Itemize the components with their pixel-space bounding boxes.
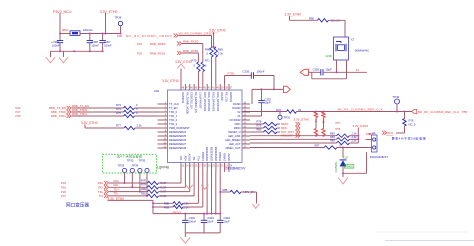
ground: [186, 185, 193, 189]
node junction: [219, 213, 221, 215]
svg-text:PFBIN1: PFBIN1: [201, 152, 205, 162]
wire: [72, 111, 124, 113]
svg-text:RXD_1/PHYAD2: RXD_1/PHYAD2: [207, 92, 211, 112]
svg-text:TX_CLK: TX_CLK: [169, 102, 179, 106]
resistor R84: [337, 138, 350, 141]
wire: [159, 182, 182, 184]
resistor R71: [201, 62, 204, 72]
resistor R81: [148, 194, 159, 197]
resistor R76: [403, 119, 406, 127]
svg-text:RESET_N: RESET_N: [229, 130, 241, 134]
svg-text:R68: R68: [205, 48, 210, 52]
note box (test points): [103, 154, 157, 173]
wire: [153, 206, 173, 208]
capacitor C306: [57, 40, 63, 42]
wire: [189, 172, 191, 192]
svg-text:TP34: TP34: [132, 164, 139, 168]
port MDIO: [296, 122, 301, 126]
svg-text:R84: R84: [330, 135, 335, 139]
node junction: [152, 206, 154, 208]
test point TP36: [118, 21, 122, 25]
wire: [197, 72, 199, 85]
node junction: [89, 33, 91, 35]
resistor R74: [124, 110, 135, 113]
svg-text:RBIAS: RBIAS: [223, 153, 227, 161]
svg-text:R88: R88: [164, 201, 169, 205]
svg-text:RMII_TXD1: RMII_TXD1: [51, 114, 66, 118]
svg-text:PHOG02B-5T: PHOG02B-5T: [370, 155, 388, 159]
svg-text:AGND: AGND: [227, 154, 231, 162]
svg-text:RD-: RD-: [179, 156, 183, 161]
node junction: [323, 111, 325, 113]
wire: [343, 172, 367, 174]
svg-text:2.2k: 2.2k: [352, 131, 358, 135]
test point TP31: [278, 115, 282, 119]
connector J4 body: [372, 135, 378, 152]
svg-text:MII_RX_DV/RMII_CRSDV: MII_RX_DV/RMII_CRSDV: [126, 34, 172, 38]
svg-text:TD-: TD-: [114, 192, 119, 196]
svg-text:RESERVED25: RESERVED25: [169, 134, 187, 138]
svg-text:要求4%干扰50欧电阻: 要求4%干扰50欧电阻: [392, 135, 426, 140]
svg-text:RESERVED: RESERVED: [214, 147, 218, 161]
test point TP32: [145, 168, 149, 172]
resistor R73: [124, 106, 135, 109]
svg-text:100nF: 100nF: [104, 44, 112, 48]
svg-text:15pF: 15pF: [326, 68, 332, 72]
svg-text:RMII_RXD1: RMII_RXD1: [183, 49, 199, 53]
svg-text:+C306: +C306: [51, 40, 59, 44]
svg-text:P21: P21: [61, 194, 66, 198]
wire: [241, 191, 257, 193]
svg-text:LED_ACT: LED_ACT: [229, 142, 241, 146]
svg-text:P28: P28: [16, 114, 21, 118]
wire: [277, 123, 280, 125]
capacitor C308: [89, 34, 91, 41]
svg-text:R80: R80: [141, 187, 146, 191]
node junction: [342, 147, 344, 149]
wire: [109, 191, 148, 193]
svg-text:C305: C305: [313, 68, 320, 72]
svg-text:FB3V3: FB3V3: [173, 210, 182, 214]
svg-text:NC_0: NC_0: [409, 122, 416, 126]
svg-text:P35: P35: [137, 52, 142, 56]
svg-text:TD+: TD+: [196, 156, 200, 161]
resistor R78: [148, 181, 159, 184]
svg-text:RXD_3/PHYAD4: RXD_3/PHYAD4: [216, 92, 220, 112]
svg-text:P59: P59: [336, 127, 341, 131]
port TD+: [104, 190, 109, 194]
node junction: [273, 88, 275, 90]
wire: [357, 128, 359, 143]
wire: [250, 123, 264, 125]
wire: [180, 172, 182, 183]
svg-text:2.2k: 2.2k: [352, 139, 358, 143]
wire: [323, 118, 325, 129]
oscillator Y2 crystal: [338, 45, 345, 51]
svg-text:R78: R78: [257, 120, 262, 124]
svg-text:TP33: TP33: [118, 164, 125, 168]
svg-text:RX_DV/MII_MODE: RX_DV/MII_MODE: [185, 92, 189, 114]
node junction: [211, 213, 213, 215]
wire: [252, 88, 284, 90]
wire: [179, 35, 212, 37]
connector J4 pin2: [373, 146, 376, 149]
wire: [311, 72, 313, 79]
capacitor C303: [203, 214, 205, 221]
resistor R65 strap: [322, 112, 325, 118]
wire: [105, 13, 107, 34]
svg-text:C326: C326: [243, 70, 250, 74]
port RD-: [104, 185, 109, 189]
svg-text:Y2: Y2: [351, 37, 355, 41]
svg-text:MII_RX_CLK/RMII_REF_CLK: MII_RX_CLK/RMII_REF_CLK: [418, 110, 459, 114]
svg-text:U32: U32: [154, 89, 160, 93]
wire: [197, 172, 199, 203]
node junction: [215, 213, 217, 215]
wire: [277, 131, 280, 133]
svg-text:10nF: 10nF: [207, 220, 213, 224]
svg-text:3.3V_ETH0: 3.3V_ETH0: [175, 60, 192, 64]
ground: [201, 185, 208, 190]
port MII_RX_CLK input: [412, 109, 417, 113]
wire: [250, 142, 337, 144]
svg-text:DGND: DGND: [233, 102, 241, 106]
svg-text:RESERVED27: RESERVED27: [169, 142, 187, 146]
svg-text:TX_EN: TX_EN: [169, 106, 177, 110]
resistor R64 strap: [314, 112, 317, 118]
wire: [254, 75, 275, 77]
svg-text:P68: P68: [366, 132, 371, 136]
svg-text:RD+: RD+: [183, 156, 187, 162]
node junction: [146, 195, 148, 197]
node junction: [323, 135, 325, 137]
wire: [309, 71, 321, 73]
ground: [46, 57, 56, 63]
wire: [182, 52, 198, 54]
wire: [220, 191, 230, 193]
power flag up: [177, 64, 185, 69]
diode D17: [340, 159, 347, 161]
node junction: [73, 50, 75, 52]
wire: [84, 124, 86, 128]
port RD+: [104, 181, 109, 185]
svg-text:TP32: TP32: [127, 158, 134, 162]
wire: [135, 115, 158, 117]
wire: [215, 172, 217, 214]
svg-text:AGND: AGND: [188, 154, 192, 162]
svg-text:RESERVED: RESERVED: [205, 147, 209, 161]
node junction: [336, 71, 338, 73]
svg-text:R64: R64: [314, 119, 317, 124]
resistor R65 strap2: [322, 129, 325, 136]
port PHY_RST: [296, 130, 301, 134]
svg-text:TP35: TP35: [139, 158, 146, 162]
svg-text:TD-: TD-: [192, 157, 196, 161]
node junction: [152, 202, 154, 204]
svg-text:2.2k: 2.2k: [137, 124, 143, 128]
sheet border faint: [385, 240, 474, 242]
node junction: [131, 186, 133, 188]
port RMII_TXD0: [67, 110, 72, 114]
svg-text:50MHz/NC: 50MHz/NC: [355, 48, 369, 52]
wire: [109, 195, 148, 197]
wire: [159, 195, 195, 197]
resistor R86: [230, 190, 241, 193]
svg-text:RESERVED24: RESERVED24: [169, 130, 187, 134]
test point TP34: [130, 168, 134, 172]
node junction: [206, 213, 208, 215]
svg-text:3.3V_ETH0: 3.3V_ETH0: [209, 28, 226, 32]
wire: [197, 61, 199, 64]
svg-text:PD402: PD402: [345, 164, 353, 168]
wire: [212, 46, 216, 48]
wire: [109, 182, 148, 184]
wire: [329, 19, 346, 21]
wire: [80, 33, 121, 35]
node junction: [139, 191, 141, 193]
wire: [131, 173, 133, 188]
svg-text:C302: C302: [189, 216, 196, 220]
capacitor C307: [102, 34, 104, 41]
svg-text:AVDD33: AVDD33: [229, 92, 233, 102]
capacitor C304: [219, 219, 221, 221]
svg-text:RESERVED: RESERVED: [210, 147, 214, 161]
wire: [350, 135, 359, 137]
wire: [72, 107, 124, 109]
wire: [182, 43, 203, 45]
node junction: [261, 88, 263, 90]
wire: [72, 115, 124, 117]
svg-text:R75: R75: [116, 111, 121, 115]
capacitor C326: [250, 72, 252, 78]
capacitor C325: [261, 89, 263, 100]
svg-text:25MHz_OUT: 25MHz_OUT: [225, 146, 241, 150]
svg-text:J4: J4: [372, 131, 375, 135]
wire: [51, 50, 103, 52]
svg-text:R74: R74: [116, 107, 121, 111]
node junction: [279, 111, 281, 113]
wire: [184, 172, 186, 187]
svg-text:R87: R87: [315, 144, 320, 148]
wire: [206, 172, 208, 214]
ground: [59, 57, 69, 63]
port TD-: [104, 194, 109, 198]
wire: [219, 172, 221, 220]
svg-text:C308: C308: [91, 40, 98, 44]
port RMII_TXD1: [67, 114, 72, 118]
svg-text:100nF: 100nF: [91, 44, 99, 48]
connector J4 pin1: [373, 138, 376, 141]
svg-text:R69: R69: [218, 48, 223, 52]
test point TP35: [138, 168, 142, 172]
ground: [180, 237, 190, 243]
svg-text:P3V3_MCU: P3V3_MCU: [53, 10, 72, 14]
wire: [350, 142, 359, 144]
svg-text:R79: R79: [141, 183, 146, 187]
node junction: [213, 46, 215, 48]
wire: [396, 104, 398, 112]
IC pin stubs: [180, 84, 182, 90]
wire: [197, 53, 199, 62]
wire: [59, 13, 61, 41]
wire: [250, 147, 324, 149]
node junction: [219, 191, 221, 193]
wire: [342, 173, 344, 177]
wire: [109, 186, 148, 188]
svg-text:X2: X2: [237, 110, 241, 114]
svg-text:3.3V_ETH0: 3.3V_ETH0: [353, 124, 369, 128]
node junction: [315, 135, 317, 137]
node junction: [357, 135, 359, 137]
wire: [337, 147, 368, 149]
svg-text:RX_CLK: RX_CLK: [225, 92, 229, 102]
svg-text:100nF: 100nF: [189, 220, 197, 224]
svg-text:3.3V_ETH0: 3.3V_ETH0: [285, 13, 302, 17]
oscillator Y2 body: [334, 37, 349, 60]
svg-text:3.3V_ETH0: 3.3V_ETH0: [294, 118, 310, 122]
node junction: [404, 111, 406, 113]
svg-text:IOVDD33: IOVDD33: [229, 118, 241, 122]
wire: [251, 89, 253, 104]
wire: [350, 138, 359, 140]
wire: [213, 32, 215, 47]
svg-text:MII_RX_CLK/RMII_REF_CLK: MII_RX_CLK/RMII_REF_CLK: [338, 107, 383, 111]
wire: [120, 26, 122, 34]
svg-text:TP31: TP31: [284, 115, 291, 119]
port RMII_RXD1: [177, 51, 182, 55]
svg-text:TXD_0: TXD_0: [169, 110, 178, 114]
port X2 left: [300, 69, 309, 75]
resistor R64 strap2: [314, 129, 317, 136]
svg-text:120ohm: 120ohm: [83, 28, 94, 32]
svg-text:10uF: 10uF: [224, 220, 230, 224]
svg-text:D17: D17: [344, 156, 349, 160]
wire: [135, 111, 158, 113]
resistor R70: [197, 62, 200, 72]
resistor R88: [173, 202, 183, 205]
wire: [184, 233, 186, 237]
resistor R85: [337, 141, 350, 144]
wire: [242, 111, 287, 113]
resistor R78: [264, 122, 278, 125]
svg-text:LED_LINK: LED_LINK: [228, 134, 241, 138]
svg-text:RXD_2/PHYAD3: RXD_2/PHYAD3: [212, 92, 216, 112]
svg-text:TP36: TP36: [115, 16, 122, 20]
svg-text:C307: C307: [104, 40, 111, 44]
node junction: [357, 138, 359, 140]
svg-text:TXD_2: TXD_2: [169, 118, 178, 122]
wire: [202, 44, 204, 62]
ground: [338, 178, 348, 185]
svg-text:LED_SPEED: LED_SPEED: [225, 138, 240, 142]
port REF_CLK out: [284, 86, 291, 92]
node junction: [315, 111, 317, 113]
svg-text:GND: GND: [326, 54, 332, 58]
wire: [60, 33, 70, 35]
svg-text:R80: R80: [257, 128, 262, 132]
svg-text:R83: R83: [330, 131, 335, 135]
wire: [153, 202, 173, 204]
svg-text:R79: R79: [257, 124, 262, 128]
svg-text:LQFP48: LQFP48: [157, 166, 169, 170]
svg-text:2.2k: 2.2k: [218, 52, 224, 56]
node junction: [105, 33, 107, 35]
svg-text:PWR_DOWN/INT: PWR_DOWN/INT: [169, 126, 190, 130]
wire: [250, 127, 264, 129]
svg-text:3.3V_ETH0: 3.3V_ETH0: [81, 121, 98, 125]
svg-text:RESERVED28: RESERVED28: [169, 146, 187, 150]
svg-text:15pF: 15pF: [265, 101, 271, 105]
wire: [342, 148, 344, 158]
wire: [336, 60, 338, 72]
wire: [180, 69, 182, 85]
svg-text:R71: R71: [205, 58, 210, 62]
svg-text:TD-: TD-: [99, 194, 104, 198]
wire: [139, 173, 141, 192]
svg-text:RMII_INT: RMII_INT: [281, 134, 293, 138]
svg-text:RMII_TXD1: RMII_TXD1: [72, 112, 87, 116]
svg-text:R85: R85: [330, 139, 335, 143]
svg-text:FT30: FT30: [228, 72, 235, 76]
svg-text:R73: R73: [116, 103, 121, 107]
wire: [225, 75, 252, 77]
node junction: [120, 33, 122, 35]
svg-text:RMII_RXD0: RMII_RXD0: [183, 39, 199, 43]
node junction: [59, 50, 61, 52]
svg-text:R77: R77: [116, 124, 121, 128]
svg-text:C303: C303: [207, 216, 214, 220]
svg-text:RXD_0/PHYAD1: RXD_0/PHYAD1: [203, 92, 207, 112]
wire: [250, 135, 337, 137]
op-amp U8 PHY body: [168, 90, 243, 163]
wire: [159, 191, 190, 193]
wire: [289, 16, 291, 20]
resistor R89: [173, 205, 183, 208]
wire: [342, 167, 344, 174]
svg-text:3.3V_ETH0: 3.3V_ETH0: [100, 10, 118, 14]
svg-text:C304: C304: [224, 216, 231, 220]
svg-text:100nF: 100nF: [52, 44, 60, 48]
svg-text:TXD_1: TXD_1: [169, 114, 178, 118]
svg-text:X1: X1: [237, 114, 241, 118]
svg-text:R89: R89: [164, 205, 169, 209]
port MII_RX_DV: [174, 34, 179, 38]
test point TP33: [122, 168, 126, 172]
resistor R69: [214, 48, 217, 58]
resistor R80: [264, 130, 278, 133]
wire: [183, 206, 203, 208]
node junction: [184, 213, 186, 215]
svg-text:COL/PHYAD0: COL/PHYAD0: [198, 92, 202, 109]
wire: [183, 202, 198, 204]
svg-text:R86: R86: [223, 188, 228, 192]
wire: [224, 76, 226, 85]
port MDC: [296, 126, 301, 130]
wire: [297, 111, 412, 113]
wire: [135, 107, 158, 109]
node junction: [59, 33, 61, 35]
resistor R75: [124, 114, 135, 117]
wire: [211, 46, 213, 49]
wire: [50, 51, 52, 57]
svg-text:MDIO: MDIO: [234, 126, 241, 130]
wire: [153, 213, 220, 215]
svg-text:CDP5V0U: CDP5V0U: [335, 161, 338, 172]
wire: [135, 127, 158, 129]
port RMII_TX_EN: [67, 106, 72, 110]
resistor R72: [287, 110, 297, 113]
resistor R87: [324, 146, 337, 149]
